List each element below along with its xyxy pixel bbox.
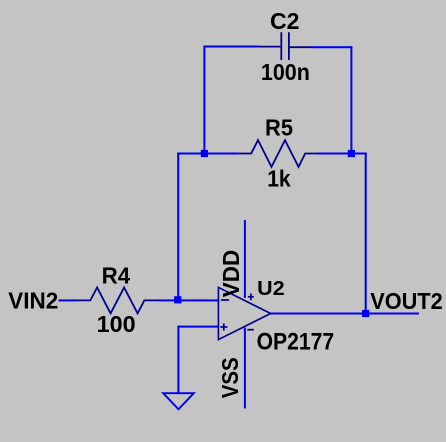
junction node at R5 right / C2 right [348, 150, 355, 157]
op-amp U2 triangle [218, 287, 270, 339]
resistor R4 [76, 287, 158, 313]
wire: C2 loop left vertical [203, 46, 205, 155]
wire: VSS stub [244, 328, 246, 409]
wire: feedback horizontal left (to R5 left pin) [177, 153, 239, 155]
capacitor C2 [260, 32, 311, 60]
wire: C2 loop right vertical [350, 46, 352, 154]
op-amp non-inverting input marker [220, 323, 227, 330]
svg-text:R5: R5 [265, 115, 293, 141]
svg-text:R4: R4 [102, 263, 131, 289]
wire: C2 loop top-right horizontal [311, 46, 353, 48]
wire: non-inverting input horizontal [177, 326, 218, 328]
resistor R5 [239, 140, 318, 167]
svg-text:VSS: VSS [217, 357, 243, 398]
wire: non-inverting to ground vertical [177, 326, 179, 394]
ground [163, 393, 194, 409]
junction node at inverting input [174, 296, 181, 303]
wire: op-amp output to VOUT2 [271, 313, 420, 315]
svg-text:U2: U2 [257, 277, 285, 300]
svg-text:C2: C2 [270, 8, 300, 34]
svg-text:100: 100 [97, 311, 136, 337]
wire: output jog vertical at x=365.5 [365, 153, 367, 315]
wire: C2 loop top-left horizontal [203, 46, 260, 48]
wire: R4 right lead to inverting junction [158, 299, 179, 301]
svg-text:VIN2: VIN2 [8, 287, 58, 313]
wire: inverting node to op-amp minus input [177, 299, 218, 301]
op-amp V+ power pin marker [248, 294, 254, 301]
svg-text:OP2177: OP2177 [257, 329, 335, 356]
wire: VDD stub [244, 220, 246, 298]
svg-text:VOUT2: VOUT2 [370, 288, 443, 314]
junction node at R5 left / C2 left [201, 150, 208, 157]
svg-text:100n: 100n [261, 59, 310, 85]
svg-text:VDD: VDD [218, 250, 244, 298]
wire: VIN2 lead to R4 [59, 299, 78, 301]
op-amp inverting input marker [221, 299, 229, 301]
wire: feedback vertical at x=178 [177, 153, 179, 302]
junction node at output VOUT2 [362, 310, 369, 317]
op-amp V- power pin marker [247, 329, 254, 331]
wire: R5 right pin to jog corner [318, 153, 367, 155]
svg-text:1k: 1k [267, 166, 291, 192]
